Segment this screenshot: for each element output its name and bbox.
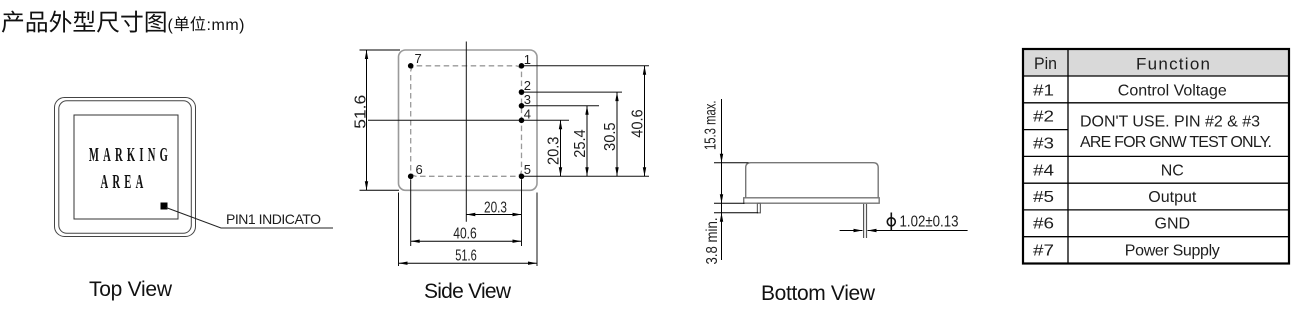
svg-text:3: 3 [524,92,531,107]
pin 6 extension line down [410,179,412,246]
pin 4 dot [519,118,525,124]
table header background [1023,49,1289,76]
svg-text:5: 5 [524,162,531,177]
dimension 51.6 side width [399,248,538,265]
svg-text:MARKING: MARKING [89,145,172,166]
top view outer case outline [55,98,196,237]
pin 5 bottom extension line [524,175,650,177]
svg-text:51.6: 51.6 [352,95,369,129]
pin 5 dot [519,174,525,180]
svg-text:20.3: 20.3 [546,137,563,166]
svg-text:#5: #5 [1033,189,1054,206]
svg-text:51.6: 51.6 [455,248,477,265]
svg-text:Bottom View: Bottom View [761,282,876,305]
pin 6 dot [408,174,414,180]
svg-text:Top View: Top View [89,278,173,301]
pin 1 leader line [166,208,333,229]
dimension 25.4 pin3 to pin5 [572,106,589,177]
pin 1 extension line [524,65,650,67]
svg-text:#3: #3 [1033,135,1054,152]
svg-text:6: 6 [416,162,423,177]
svg-text:GND: GND [1155,216,1191,233]
svg-text:3.8 min.: 3.8 min. [704,218,721,265]
svg-text:4: 4 [524,106,531,121]
svg-text:20.3: 20.3 [484,199,507,216]
bottom view body outline [746,163,879,198]
table column divider [1067,49,1069,264]
svg-text:1: 1 [524,52,531,67]
pin 2 extension line [524,91,623,93]
dimension 40.6 pin1 to pin5 [630,66,647,177]
pin 2 dot [519,89,525,95]
marking area text line 2 [101,172,148,193]
svg-text:Function: Function [1136,55,1210,74]
svg-text:#2: #2 [1033,109,1054,126]
side view pin circle dashed outline [411,66,522,177]
vertical centerline [465,42,467,222]
table row line pin column only [1023,129,1068,131]
square right edge extension down [536,193,538,267]
svg-text:15.3 max.: 15.3 max. [703,101,720,151]
pin 7 dot [408,63,414,69]
bottom view right pin [863,204,865,238]
svg-text:7: 7 [415,51,422,66]
side view package outline [399,50,538,190]
svg-text:30.5: 30.5 [602,122,619,151]
pin 3 dot [519,103,525,109]
svg-text:25.4: 25.4 [572,129,589,158]
svg-text:40.6: 40.6 [630,109,647,138]
svg-text:PIN1 INDICATO: PIN1 INDICATO [226,211,321,227]
svg-text:Pin: Pin [1034,55,1057,73]
square left edge extension down [398,193,400,267]
pin 1 indicator square [161,203,168,210]
svg-text:AREA: AREA [101,172,148,193]
title unit (单位:mm) [168,16,245,34]
svg-text:DON'T USE. PIN #2 & #3: DON'T USE. PIN #2 & #3 [1080,114,1260,131]
svg-text::mm): :mm) [207,17,245,34]
dimension 20.3 pin4 to pin5 [546,120,563,176]
svg-text:Power Supply: Power Supply [1125,242,1220,259]
pin diameter dimension line [840,229,968,232]
dimension 40.6 pin6 to pin5 [411,226,522,243]
dimension 20.3 center to pin5 [466,199,521,216]
svg-text:ARE FOR GNW TEST ONLY.: ARE FOR GNW TEST ONLY. [1080,134,1272,151]
pin 3 extension line [524,105,600,107]
top view marking area square [74,115,178,219]
svg-text:Output: Output [1148,189,1197,206]
svg-text:Side View: Side View [424,280,512,303]
svg-text:40.6: 40.6 [453,226,477,243]
svg-text:1.02±0.13: 1.02±0.13 [900,213,959,230]
svg-text:NC: NC [1161,162,1184,179]
dimension 30.5 pin2 to pin5 [602,92,619,176]
svg-text:Control Voltage: Control Voltage [1118,82,1227,99]
title 产品外型尺寸图 [2,11,166,33]
table outer border [1023,49,1289,264]
marking area text line 1 [89,145,172,166]
bottom view left pin [757,203,760,213]
horizontal centerline [368,119,569,121]
table row lines [1023,76,1289,237]
svg-text:#4: #4 [1033,162,1054,179]
svg-text:#6: #6 [1033,216,1054,233]
svg-text:#7: #7 [1033,242,1054,259]
height dimension lines [714,99,758,260]
top view inner case outline [59,101,192,234]
dimension 51.6 side height [352,50,400,190]
pin 1 dot [519,63,525,69]
bottom view base plate [744,198,880,203]
svg-text:2: 2 [524,78,531,93]
pin 5 extension line down [521,179,523,246]
diameter symbol [887,213,895,231]
svg-text:(: ( [168,17,174,34]
svg-text:#1: #1 [1033,82,1054,99]
